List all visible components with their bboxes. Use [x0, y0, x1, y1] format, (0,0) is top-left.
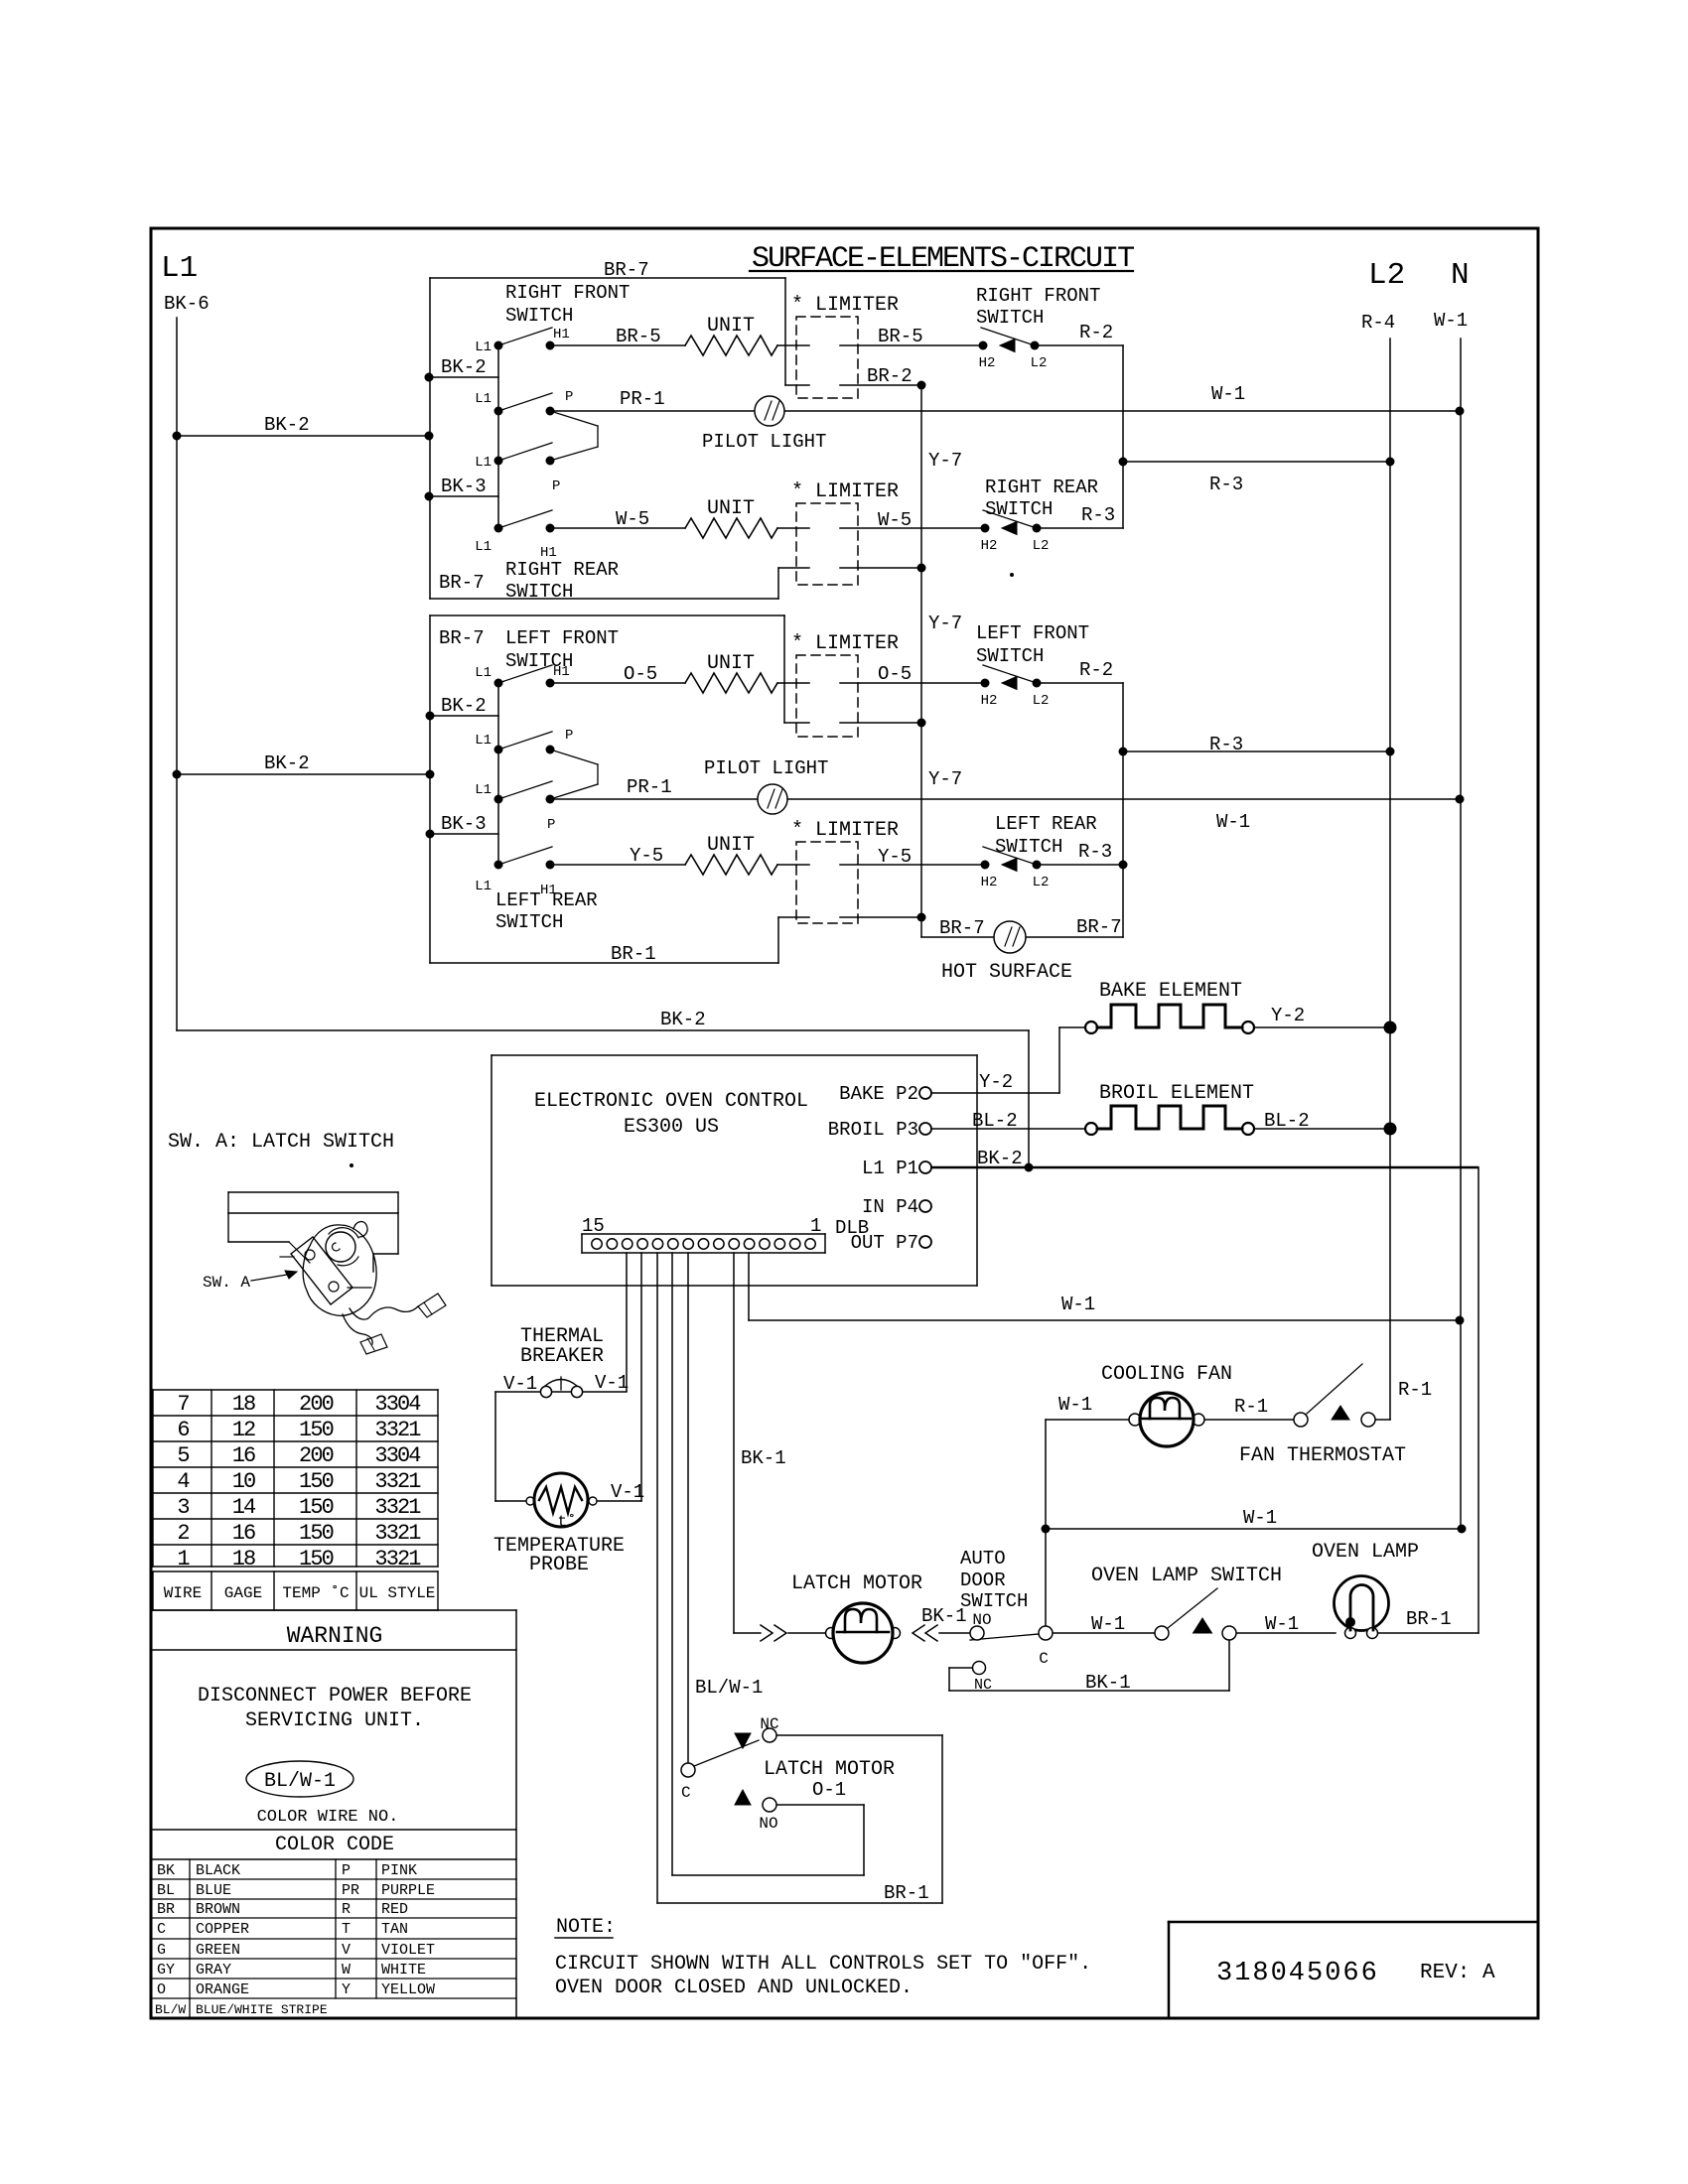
svg-text:SWITCH: SWITCH — [976, 645, 1044, 667]
svg-text:BK-1: BK-1 — [741, 1447, 786, 1469]
svg-text:BR-2: BR-2 — [867, 365, 913, 387]
svg-text:200: 200 — [299, 1443, 334, 1468]
svg-text:BK-6: BK-6 — [164, 293, 210, 315]
svg-text:BLACK: BLACK — [196, 1862, 240, 1879]
svg-text:BK-2: BK-2 — [977, 1148, 1023, 1169]
svg-text:BK-2: BK-2 — [441, 356, 487, 378]
svg-text:R-3: R-3 — [1078, 841, 1112, 863]
svg-text:BK-3: BK-3 — [441, 813, 487, 835]
svg-text:* LIMITER: * LIMITER — [791, 632, 899, 655]
svg-text:GAGE: GAGE — [224, 1584, 262, 1602]
svg-text:18: 18 — [232, 1547, 255, 1571]
svg-text:W-5: W-5 — [616, 508, 649, 530]
svg-text:200: 200 — [299, 1392, 334, 1417]
svg-text:COLOR CODE: COLOR CODE — [275, 1834, 394, 1856]
svg-text:L1: L1 — [475, 733, 492, 749]
svg-text:3321: 3321 — [374, 1521, 421, 1546]
svg-text:C: C — [1039, 1650, 1049, 1668]
svg-text:3304: 3304 — [374, 1443, 421, 1468]
svg-text:P: P — [565, 728, 573, 744]
svg-text:V: V — [342, 1942, 351, 1959]
svg-text:V-1: V-1 — [503, 1373, 537, 1395]
svg-text:BREAKER: BREAKER — [520, 1345, 604, 1368]
svg-text:Y: Y — [342, 1981, 351, 1998]
svg-text:L1: L1 — [475, 391, 492, 407]
svg-text:3321: 3321 — [374, 1418, 421, 1442]
svg-text:H2: H2 — [981, 693, 998, 709]
svg-text:PR-1: PR-1 — [620, 388, 665, 410]
svg-text:R-2: R-2 — [1079, 322, 1113, 343]
svg-text:L1: L1 — [475, 539, 492, 555]
svg-text:W-1: W-1 — [1216, 811, 1250, 833]
svg-text:1: 1 — [177, 1547, 190, 1571]
svg-text:10: 10 — [232, 1469, 255, 1494]
svg-text:BROIL ELEMENT: BROIL ELEMENT — [1099, 1082, 1254, 1105]
svg-text:UNIT: UNIT — [707, 315, 755, 338]
svg-text:RIGHT REAR: RIGHT REAR — [505, 559, 619, 581]
svg-text:150: 150 — [299, 1418, 334, 1442]
svg-text:ES300 US: ES300 US — [624, 1116, 719, 1139]
svg-text:T: T — [342, 1921, 351, 1938]
svg-text:WIRE: WIRE — [164, 1584, 202, 1602]
svg-text:16: 16 — [232, 1443, 255, 1468]
svg-text:BL/W-1: BL/W-1 — [264, 1770, 336, 1793]
svg-text:PINK: PINK — [381, 1862, 417, 1879]
svg-text:Y-2: Y-2 — [1271, 1005, 1305, 1026]
svg-text:PR-1: PR-1 — [627, 776, 672, 798]
svg-text:V-1: V-1 — [595, 1372, 629, 1394]
svg-text:L2: L2 — [1033, 875, 1050, 890]
svg-text:YELLOW: YELLOW — [381, 1981, 435, 1998]
svg-text:H1: H1 — [553, 327, 570, 342]
svg-text:SERVICING UNIT.: SERVICING UNIT. — [245, 1709, 424, 1732]
svg-text:R-4: R-4 — [1361, 312, 1395, 334]
svg-text:DLB: DLB — [835, 1217, 869, 1239]
svg-text:UNIT: UNIT — [707, 652, 755, 675]
svg-text:BR-7: BR-7 — [439, 627, 485, 649]
svg-text:BL/W: BL/W — [155, 2002, 186, 2017]
svg-text:GRAY: GRAY — [196, 1962, 231, 1979]
svg-text:BR-1: BR-1 — [611, 943, 656, 965]
svg-text:BR-7: BR-7 — [939, 917, 985, 939]
svg-text:R-3: R-3 — [1209, 734, 1243, 755]
svg-text:H2: H2 — [981, 875, 998, 890]
svg-text:3: 3 — [177, 1495, 189, 1520]
svg-text:150: 150 — [299, 1547, 334, 1571]
svg-text:3304: 3304 — [374, 1392, 421, 1417]
svg-text:Y-5: Y-5 — [630, 845, 663, 867]
svg-text:Y-7: Y-7 — [928, 613, 962, 634]
svg-text:7: 7 — [177, 1392, 189, 1417]
svg-text:15: 15 — [582, 1215, 605, 1237]
svg-text:H1: H1 — [553, 664, 570, 680]
svg-text:LEFT FRONT: LEFT FRONT — [505, 627, 619, 649]
svg-text:L1: L1 — [475, 665, 492, 681]
svg-text:WARNING: WARNING — [287, 1623, 383, 1649]
svg-text:FAN THERMOSTAT: FAN THERMOSTAT — [1239, 1444, 1406, 1467]
svg-text:SWITCH: SWITCH — [976, 307, 1044, 329]
svg-text:L1: L1 — [475, 340, 492, 355]
svg-text:* LIMITER: * LIMITER — [791, 480, 899, 503]
svg-text:OVEN LAMP: OVEN LAMP — [1312, 1541, 1419, 1564]
svg-text:UNIT: UNIT — [707, 834, 755, 857]
svg-text:REV: A: REV: A — [1420, 1962, 1495, 1984]
svg-text:2: 2 — [177, 1521, 189, 1546]
svg-text:HOT SURFACE: HOT SURFACE — [941, 961, 1072, 984]
svg-text:R: R — [342, 1901, 351, 1918]
svg-text:BROIL P3: BROIL P3 — [828, 1119, 918, 1141]
svg-text:W-1: W-1 — [1091, 1613, 1125, 1635]
svg-text:W-1: W-1 — [1243, 1507, 1277, 1529]
svg-text:NO: NO — [972, 1611, 991, 1629]
svg-text:ELECTRONIC OVEN CONTROL: ELECTRONIC OVEN CONTROL — [534, 1090, 808, 1113]
svg-text:COPPER: COPPER — [196, 1921, 249, 1938]
svg-text:C: C — [157, 1921, 166, 1938]
svg-text:150: 150 — [299, 1469, 334, 1494]
svg-text:3321: 3321 — [374, 1547, 421, 1571]
svg-text:PURPLE: PURPLE — [381, 1882, 435, 1899]
svg-text:SWITCH: SWITCH — [505, 305, 573, 327]
svg-text:W-1: W-1 — [1061, 1294, 1095, 1315]
svg-text:RIGHT FRONT: RIGHT FRONT — [505, 282, 630, 304]
svg-text:W: W — [342, 1962, 351, 1979]
svg-text:AUTO: AUTO — [960, 1548, 1006, 1570]
svg-text:PROBE: PROBE — [529, 1554, 589, 1576]
svg-text:RIGHT FRONT: RIGHT FRONT — [976, 285, 1100, 307]
svg-text:318045066: 318045066 — [1216, 1959, 1379, 1988]
svg-text:P: P — [547, 817, 555, 833]
svg-text:SW. A: LATCH SWITCH: SW. A: LATCH SWITCH — [168, 1131, 394, 1154]
svg-text:H1: H1 — [540, 883, 557, 898]
svg-text:LEFT FRONT: LEFT FRONT — [976, 622, 1089, 644]
svg-text:COLOR WIRE NO.: COLOR WIRE NO. — [257, 1808, 399, 1827]
svg-text:BR-1: BR-1 — [884, 1882, 929, 1904]
svg-text:CIRCUIT SHOWN WITH ALL CONTROL: CIRCUIT SHOWN WITH ALL CONTROLS SET TO "… — [555, 1953, 1091, 1976]
svg-text:O-5: O-5 — [624, 663, 657, 685]
svg-text:O-1: O-1 — [812, 1779, 846, 1801]
svg-text:BR-1: BR-1 — [1406, 1608, 1452, 1630]
svg-text:W-1: W-1 — [1211, 383, 1245, 405]
svg-text:6: 6 — [177, 1418, 189, 1442]
svg-text:BK-2: BK-2 — [660, 1009, 706, 1030]
svg-text:L1 P1: L1 P1 — [862, 1158, 918, 1179]
svg-text:L1: L1 — [475, 455, 492, 471]
svg-text:18: 18 — [232, 1392, 255, 1417]
svg-text:R-1: R-1 — [1234, 1396, 1268, 1418]
svg-text:NC: NC — [974, 1677, 992, 1694]
svg-text:IN P4: IN P4 — [862, 1196, 918, 1218]
svg-text:P: P — [565, 389, 573, 405]
svg-text:1: 1 — [810, 1215, 821, 1237]
svg-text:P: P — [342, 1862, 351, 1879]
svg-text:Y-2: Y-2 — [979, 1071, 1013, 1093]
svg-text:COOLING FAN: COOLING FAN — [1101, 1363, 1232, 1386]
svg-text:L2: L2 — [1368, 258, 1405, 293]
svg-text:BLUE: BLUE — [196, 1882, 231, 1899]
svg-text:VIOLET: VIOLET — [381, 1942, 435, 1959]
svg-text:W-1: W-1 — [1265, 1613, 1299, 1635]
svg-text:L2: L2 — [1033, 693, 1050, 709]
svg-text:Y-7: Y-7 — [928, 768, 962, 790]
svg-text:DISCONNECT POWER BEFORE: DISCONNECT POWER BEFORE — [198, 1685, 472, 1707]
svg-text:SWITCH: SWITCH — [495, 911, 563, 933]
svg-text:BR: BR — [157, 1901, 175, 1918]
svg-text:SWITCH: SWITCH — [985, 498, 1053, 520]
svg-text:* LIMITER: * LIMITER — [791, 294, 899, 317]
svg-text:BL-2: BL-2 — [1264, 1110, 1310, 1132]
svg-text:TAN: TAN — [381, 1921, 408, 1938]
svg-text:BROWN: BROWN — [196, 1901, 240, 1918]
svg-text:SWITCH: SWITCH — [995, 836, 1062, 858]
svg-text:BK-1: BK-1 — [1085, 1672, 1131, 1694]
svg-text:LATCH MOTOR: LATCH MOTOR — [764, 1758, 895, 1781]
svg-text:P: P — [552, 478, 560, 494]
svg-text:UNIT: UNIT — [707, 497, 755, 520]
svg-text:R-3: R-3 — [1209, 474, 1243, 495]
svg-text:C: C — [681, 1784, 691, 1802]
svg-text:OVEN LAMP SWITCH: OVEN LAMP SWITCH — [1091, 1565, 1282, 1587]
svg-text:H1: H1 — [540, 545, 557, 561]
svg-text:SWITCH: SWITCH — [505, 581, 573, 603]
svg-text:BL-2: BL-2 — [972, 1110, 1018, 1132]
svg-text:ORANGE: ORANGE — [196, 1981, 249, 1998]
svg-text:R-1: R-1 — [1398, 1379, 1432, 1401]
svg-text:12: 12 — [232, 1418, 255, 1442]
svg-text:L1: L1 — [475, 782, 492, 798]
svg-text:OVEN DOOR CLOSED AND UNLOCKED.: OVEN DOOR CLOSED AND UNLOCKED. — [555, 1977, 913, 1999]
svg-text:WHITE: WHITE — [381, 1962, 426, 1979]
svg-text:Y-5: Y-5 — [878, 846, 912, 868]
svg-text:4: 4 — [177, 1469, 190, 1494]
svg-text:PILOT LIGHT: PILOT LIGHT — [704, 757, 828, 779]
svg-text:LATCH MOTOR: LATCH MOTOR — [791, 1572, 922, 1595]
svg-text:RED: RED — [381, 1901, 408, 1918]
svg-text:O: O — [157, 1981, 166, 1998]
svg-text:BL: BL — [157, 1882, 175, 1899]
svg-text:PR: PR — [342, 1882, 359, 1899]
svg-text:NO: NO — [759, 1815, 777, 1833]
svg-text:BK-2: BK-2 — [264, 414, 310, 436]
svg-text:150: 150 — [299, 1495, 334, 1520]
svg-text:SW. A: SW. A — [203, 1274, 250, 1292]
svg-text:BR-7: BR-7 — [604, 259, 649, 281]
svg-text:5: 5 — [177, 1443, 189, 1468]
svg-text:G: G — [157, 1942, 166, 1959]
svg-text:TEMP ˚C: TEMP ˚C — [282, 1584, 349, 1602]
svg-text:BK-2: BK-2 — [264, 752, 310, 774]
svg-text:SWITCH: SWITCH — [960, 1590, 1028, 1612]
svg-text:W-5: W-5 — [878, 509, 912, 531]
svg-text:BR-5: BR-5 — [878, 326, 923, 347]
svg-text:H2: H2 — [981, 538, 998, 554]
svg-text:BR-7: BR-7 — [439, 572, 485, 594]
svg-text:BAKE ELEMENT: BAKE ELEMENT — [1099, 980, 1242, 1003]
svg-text:SURFACE-ELEMENTS-CIRCUIT: SURFACE-ELEMENTS-CIRCUIT — [752, 242, 1134, 276]
svg-text:RIGHT REAR: RIGHT REAR — [985, 477, 1098, 498]
svg-text:W-1: W-1 — [1058, 1394, 1092, 1416]
svg-text:16: 16 — [232, 1521, 255, 1546]
svg-text:3321: 3321 — [374, 1495, 421, 1520]
svg-text:R-3: R-3 — [1081, 504, 1115, 526]
svg-text:L2: L2 — [1033, 538, 1050, 554]
svg-text:LEFT REAR: LEFT REAR — [995, 813, 1097, 835]
svg-text:BL/W-1: BL/W-1 — [695, 1677, 763, 1699]
svg-text:BK-3: BK-3 — [441, 476, 487, 497]
svg-text:BK: BK — [157, 1862, 175, 1879]
svg-text:NOTE:: NOTE: — [556, 1916, 616, 1939]
svg-text:BR-5: BR-5 — [616, 326, 661, 347]
svg-text:R-2: R-2 — [1079, 659, 1113, 681]
svg-text:150: 150 — [299, 1521, 334, 1546]
svg-text:GREEN: GREEN — [196, 1942, 240, 1959]
svg-text:V-1: V-1 — [611, 1481, 644, 1503]
svg-text:W-1: W-1 — [1434, 310, 1468, 332]
svg-text:BR-7: BR-7 — [1076, 916, 1122, 938]
svg-text:BLUE/WHITE STRIPE: BLUE/WHITE STRIPE — [196, 2002, 328, 2017]
svg-text:L2: L2 — [1031, 355, 1048, 371]
svg-text:PILOT LIGHT: PILOT LIGHT — [702, 431, 826, 453]
svg-text:BK-2: BK-2 — [441, 695, 487, 717]
svg-text:O-5: O-5 — [878, 663, 912, 685]
svg-text:DOOR: DOOR — [960, 1570, 1006, 1591]
svg-text:L1: L1 — [475, 879, 492, 894]
svg-text:BAKE P2: BAKE P2 — [839, 1083, 918, 1105]
svg-text:3321: 3321 — [374, 1469, 421, 1494]
svg-text:t˚: t˚ — [557, 1513, 576, 1531]
svg-text:Y-7: Y-7 — [928, 450, 962, 472]
svg-text:14: 14 — [232, 1495, 256, 1520]
svg-text:L1: L1 — [161, 251, 198, 286]
svg-text:UL STYLE: UL STYLE — [359, 1584, 436, 1602]
svg-text:* LIMITER: * LIMITER — [791, 819, 899, 842]
svg-text:H2: H2 — [979, 355, 996, 371]
svg-text:NC: NC — [760, 1715, 778, 1733]
svg-text:N: N — [1451, 258, 1470, 293]
svg-text:GY: GY — [157, 1962, 175, 1979]
